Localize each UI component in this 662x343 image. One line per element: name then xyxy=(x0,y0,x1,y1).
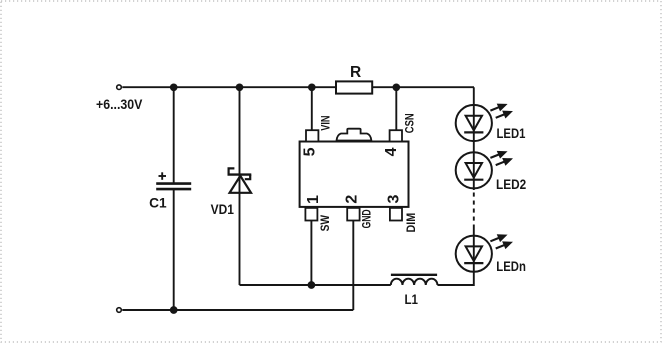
op-amp U1 body xyxy=(300,129,409,207)
wire C1 top xyxy=(173,87,175,183)
pin 5 pad xyxy=(306,130,318,141)
svg-text:DIM: DIM xyxy=(404,213,418,233)
svg-text:SW: SW xyxy=(318,214,332,231)
wire LED chain top xyxy=(473,87,475,190)
terminal - (return) xyxy=(117,308,122,313)
pin 2 pad xyxy=(347,208,359,221)
svg-text:R: R xyxy=(350,64,361,81)
svg-text:VIN: VIN xyxy=(319,115,333,130)
wire GND pin2 down xyxy=(352,221,354,311)
wire top rail xyxy=(122,86,474,88)
node junction CSN rail xyxy=(392,83,400,91)
pin 3 pad xyxy=(390,208,402,221)
wire dashed LED chain xyxy=(473,193,475,227)
wire VD1 vertical xyxy=(239,87,241,285)
svg-text:CSN: CSN xyxy=(403,113,417,133)
svg-text:VD1: VD1 xyxy=(211,202,235,217)
zener diode VD1 xyxy=(228,168,252,192)
wire SW pin1 down xyxy=(310,221,312,286)
wire CSN pin4 xyxy=(395,87,397,131)
wire L1 to LED chain xyxy=(437,272,473,285)
pin 4 pad xyxy=(390,130,402,141)
wire switch node to L1 xyxy=(240,284,391,286)
svg-text:2: 2 xyxy=(344,195,361,204)
terminal + (input) xyxy=(117,85,122,90)
node junction C1 bottom xyxy=(170,306,178,314)
wire LEDn top xyxy=(473,226,475,272)
resistor R xyxy=(336,81,372,93)
node junction C1 top xyxy=(170,83,178,91)
svg-text:C1: C1 xyxy=(149,196,167,211)
wire C1 bottom xyxy=(173,189,175,310)
svg-text:LED1: LED1 xyxy=(497,126,526,141)
wire bottom rail xyxy=(122,309,353,311)
wire VIN pin5 xyxy=(311,87,313,131)
capacitor C1 xyxy=(156,172,191,189)
pin 1 pad xyxy=(305,208,317,221)
svg-text:3: 3 xyxy=(385,195,402,204)
svg-text:L1: L1 xyxy=(405,292,419,307)
svg-text:LEDn: LEDn xyxy=(496,259,526,274)
svg-text:LED2: LED2 xyxy=(496,177,526,192)
inductor L1 xyxy=(391,275,438,285)
svg-text:4: 4 xyxy=(383,147,400,156)
node junction VIN rail xyxy=(308,83,316,91)
LED LED1 xyxy=(456,104,512,141)
node junction SW xyxy=(308,281,316,289)
svg-text:GND: GND xyxy=(359,209,373,228)
LED LED2 xyxy=(456,151,512,188)
node junction VD1 top xyxy=(236,83,244,91)
svg-text:5: 5 xyxy=(301,147,318,156)
svg-text:1: 1 xyxy=(305,195,322,204)
svg-text:+6...30V: +6...30V xyxy=(96,97,142,112)
LED LEDn xyxy=(456,235,512,272)
